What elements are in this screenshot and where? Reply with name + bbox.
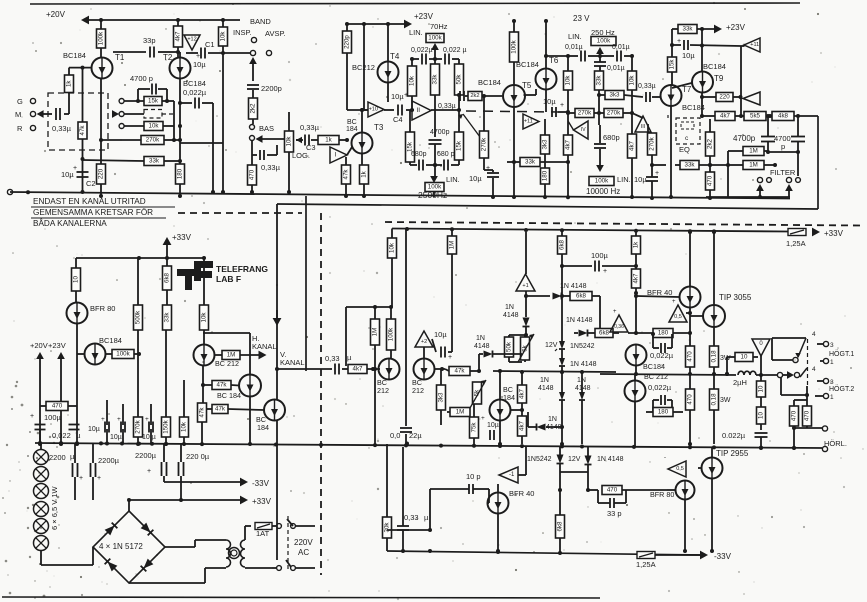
svg-text:4700p: 4700p xyxy=(733,134,756,143)
transistor T2 xyxy=(163,53,191,79)
capacitor 2200p xyxy=(247,84,282,93)
svg-text:BAND: BAND xyxy=(250,17,271,26)
main mid bus xyxy=(35,441,822,450)
svg-text:0,18: 0,18 xyxy=(711,393,718,406)
svg-text:184: 184 xyxy=(346,126,358,133)
svg-text:+: + xyxy=(97,475,101,482)
resistor 4k7 out xyxy=(702,112,744,121)
svg-text:BC 212: BC 212 xyxy=(215,359,239,368)
svg-text:100k: 100k xyxy=(595,178,609,185)
label BAS xyxy=(259,124,274,133)
resistor 10 outv2 xyxy=(757,407,766,430)
svg-text:1N5242: 1N5242 xyxy=(570,343,595,350)
capacitor 0.01 a xyxy=(568,51,602,62)
svg-text:+33V: +33V xyxy=(172,233,192,242)
wire eq stub xyxy=(667,114,669,118)
svg-text:BAS: BAS xyxy=(259,124,274,133)
capacitor 100u ps xyxy=(30,413,62,444)
wire fb right mid rail xyxy=(173,101,175,140)
node +20V to 100k xyxy=(99,18,103,29)
transistor BFR40 xyxy=(680,287,701,308)
wire 4700p down xyxy=(433,163,437,176)
wire -1 tri link xyxy=(518,447,526,475)
label HOGT1 xyxy=(829,350,854,358)
svg-text:1N 4148: 1N 4148 xyxy=(560,283,587,290)
arrow +20V up xyxy=(36,352,44,446)
svg-text:BC 212: BC 212 xyxy=(644,372,668,381)
svg-text:1,25A: 1,25A xyxy=(636,560,656,569)
label AVSP xyxy=(265,29,286,38)
svg-text:1N: 1N xyxy=(548,416,557,423)
svg-text:KANAL: KANAL xyxy=(280,358,305,367)
pot 5k d xyxy=(518,334,534,362)
label BC184 T1 xyxy=(63,51,86,60)
resistor 150k row xyxy=(162,330,171,446)
svg-text:1M: 1M xyxy=(456,409,465,416)
svg-text:AVSP.: AVSP. xyxy=(265,29,286,38)
capacitor 10u iii xyxy=(634,163,659,200)
svg-text:0,022µ: 0,022µ xyxy=(411,47,433,54)
pot wiper log arrow xyxy=(296,137,303,144)
wire amp sig mid xyxy=(405,367,449,446)
resistor 33k eq row xyxy=(652,161,728,170)
svg-text:47k: 47k xyxy=(215,406,226,413)
resistor 10k 70hz xyxy=(408,66,417,112)
wire v kanal out xyxy=(275,367,330,371)
wire T1 emitter down xyxy=(100,79,102,165)
svg-text:4k7: 4k7 xyxy=(353,366,364,373)
svg-text:1N 4148: 1N 4148 xyxy=(597,456,624,463)
svg-text:R: R xyxy=(17,124,23,133)
amp triangle 0.36 a xyxy=(610,309,628,332)
resistor 4k7 amp in xyxy=(348,365,380,374)
resistor 470 sp2 xyxy=(803,400,812,428)
wire f right join xyxy=(768,152,798,176)
capacitor 0.022 amp xyxy=(390,428,422,440)
svg-text:0,33µ: 0,33µ xyxy=(438,103,456,110)
capacitor C3 xyxy=(296,123,320,152)
resistor 10 outv1 xyxy=(757,375,766,407)
node 10k top xyxy=(221,18,225,27)
arrow bas wiper xyxy=(256,135,286,143)
svg-text:µ: µ xyxy=(76,431,81,440)
svg-text:0,33: 0,33 xyxy=(404,513,419,522)
capacitor 10u t5e xyxy=(469,165,499,199)
svg-text:220p: 220p xyxy=(344,35,351,49)
svg-text:BFR 40: BFR 40 xyxy=(509,489,534,498)
svg-text:FILTER: FILTER xyxy=(770,168,796,177)
resistor 10 bfr80 xyxy=(72,258,81,302)
resistor 2k2 bas xyxy=(249,98,258,119)
svg-text:680 p: 680 p xyxy=(437,151,455,158)
resistor 50k d xyxy=(505,335,527,362)
svg-text:1M: 1M xyxy=(227,352,236,359)
label 4x1N5172 xyxy=(99,542,143,551)
svg-text:5k5: 5k5 xyxy=(750,113,761,120)
main out wire xyxy=(600,372,736,376)
svg-text:33p: 33p xyxy=(143,36,156,45)
svg-text:0,33µ: 0,33µ xyxy=(638,83,656,90)
diode out1 xyxy=(566,317,595,337)
svg-text:BC184: BC184 xyxy=(63,51,86,60)
svg-text:IV: IV xyxy=(581,127,586,133)
svg-text:HÖGT.2: HÖGT.2 xyxy=(829,385,854,393)
svg-text:4k7: 4k7 xyxy=(175,31,182,42)
resistor 2k2 eq xyxy=(706,119,715,172)
svg-text:0,36: 0,36 xyxy=(614,324,624,330)
svg-text:0,33µ: 0,33µ xyxy=(52,124,72,133)
wire tri2 up xyxy=(739,46,745,118)
resistor 1M amp top xyxy=(448,229,457,254)
diode d4 down xyxy=(559,372,565,446)
label 4700p fb xyxy=(130,74,153,83)
svg-text:1N: 1N xyxy=(505,304,514,311)
dashed box fb xyxy=(144,110,162,119)
svg-text:+23V: +23V xyxy=(726,23,746,32)
svg-text:+: + xyxy=(481,415,485,422)
label BC212 out xyxy=(644,372,668,381)
svg-text:LIN.: LIN. xyxy=(409,28,423,37)
resistor 33k rail xyxy=(163,290,172,330)
wire 700 vertical xyxy=(727,165,729,198)
label 0.33u t7 xyxy=(638,83,656,90)
resistor 10k 250b xyxy=(628,54,637,115)
wire 100k to T1 xyxy=(100,48,102,57)
svg-text:+: + xyxy=(613,309,617,315)
svg-text:33k: 33k xyxy=(596,75,603,86)
input terminal M xyxy=(15,110,36,119)
svg-text:LIN.: LIN. xyxy=(446,175,460,184)
svg-text:10k: 10k xyxy=(389,242,396,253)
capacitor 4700p f2 xyxy=(791,116,805,154)
wire tip3055 collector xyxy=(712,230,716,305)
resistor 6k8 out xyxy=(595,329,619,338)
lamp chain xyxy=(34,450,49,551)
label BC184 T7 xyxy=(682,103,705,112)
resistor 470 outb xyxy=(686,374,695,446)
label +20V +23V xyxy=(30,341,66,350)
capacitor 0.022 out2 xyxy=(648,383,672,412)
svg-text:0,5: 0,5 xyxy=(676,466,684,472)
resistor 15k 70hz low xyxy=(406,110,415,165)
resistor 6k8 amp top xyxy=(558,232,567,254)
resistor 33k fb xyxy=(83,157,181,166)
switch filter 1 xyxy=(756,177,771,199)
wire 2k2 to bas node xyxy=(252,119,254,124)
label INSP xyxy=(233,28,252,37)
svg-text:0,022: 0,022 xyxy=(52,431,71,440)
resistor 10k r3 xyxy=(219,27,228,46)
label 470 ps xyxy=(40,402,77,411)
label BAND xyxy=(250,17,271,26)
svg-text:2k2: 2k2 xyxy=(250,103,257,114)
wire 226 vertical xyxy=(221,53,225,194)
svg-text:BC: BC xyxy=(347,119,357,126)
svg-text:+11: +11 xyxy=(524,119,533,125)
svg-text:2500Hz: 2500Hz xyxy=(418,190,447,200)
svg-text:75k: 75k xyxy=(471,422,478,433)
svg-text:LIN.: LIN. xyxy=(568,32,582,41)
svg-text:HÖRL.: HÖRL. xyxy=(824,439,847,448)
svg-text:0,5: 0,5 xyxy=(674,314,682,320)
svg-text:15k: 15k xyxy=(669,59,676,70)
svg-text:270k: 270k xyxy=(578,110,592,117)
wire T4 top xyxy=(386,22,390,62)
svg-text:6k8: 6k8 xyxy=(559,239,566,250)
diode d5 down xyxy=(579,372,585,444)
svg-text:BC184: BC184 xyxy=(183,79,206,88)
resistor 180 out2 xyxy=(646,408,683,417)
arrow fb2 xyxy=(112,110,174,118)
wire T2 top xyxy=(172,52,180,58)
svg-text:470: 470 xyxy=(249,169,256,180)
terminal out circle xyxy=(777,371,799,379)
capacitor C4 10u xyxy=(384,92,414,124)
wire 0.36 out xyxy=(628,294,653,335)
svg-text:270k: 270k xyxy=(481,137,488,151)
svg-text:3W: 3W xyxy=(720,397,731,404)
+20V rail wire xyxy=(46,10,240,24)
svg-text:100k: 100k xyxy=(511,39,518,53)
label 4700p f1 xyxy=(733,134,756,143)
capacitor C1 10u xyxy=(186,40,250,69)
label LAB F xyxy=(216,274,241,284)
capacitor 0.022 outv xyxy=(722,431,768,450)
label 1N4148 d6 xyxy=(546,416,562,431)
wire top rail amp xyxy=(392,227,788,233)
svg-text:3k3: 3k3 xyxy=(542,139,549,150)
label 0.022u b xyxy=(443,47,467,54)
svg-text:50k: 50k xyxy=(456,74,463,85)
svg-text:T4: T4 xyxy=(390,52,400,61)
resistor 220 emitter T1 xyxy=(97,164,106,184)
svg-text:+: + xyxy=(117,416,121,423)
amp triangle +11 mid xyxy=(523,114,539,129)
svg-text:+12: +12 xyxy=(187,37,196,43)
svg-text:220 0µ: 220 0µ xyxy=(186,452,210,461)
svg-text:+: + xyxy=(486,165,490,172)
svg-text:270k: 270k xyxy=(607,110,621,117)
fuse +33V top xyxy=(786,228,844,248)
svg-text:0,0: 0,0 xyxy=(390,431,400,440)
svg-text:6 × 6,5 V 1W: 6 × 6,5 V 1W xyxy=(50,486,59,530)
resistor 4k7 250b xyxy=(628,114,637,199)
wire T3 collector up xyxy=(360,108,364,133)
dashed divider horizontal xyxy=(178,213,860,226)
capacitor 4700p fb xyxy=(136,84,169,104)
svg-text:GEMENSAMMA KRETSAR FÖR: GEMENSAMMA KRETSAR FÖR xyxy=(33,207,153,217)
wire t5 down xyxy=(512,108,516,200)
svg-text:1k: 1k xyxy=(633,241,640,248)
svg-text:47k: 47k xyxy=(343,169,350,180)
transistor TIP3055 xyxy=(703,293,752,327)
capacitor 10p xyxy=(430,484,489,503)
svg-text:10 p: 10 p xyxy=(466,472,481,481)
svg-text:+: + xyxy=(448,354,452,361)
svg-text:BC212: BC212 xyxy=(352,63,375,72)
wire 10p left xyxy=(428,489,432,532)
wire 10 to tri xyxy=(753,356,763,377)
label 23V right xyxy=(573,14,590,23)
capacitor 0.33u t5 xyxy=(438,91,480,137)
capacitor 0.022 out1 xyxy=(650,332,674,360)
svg-text:10k: 10k xyxy=(629,75,636,86)
svg-text:184: 184 xyxy=(257,423,269,432)
pot 100k 10000Hz xyxy=(589,165,631,186)
diode d1 down xyxy=(523,296,530,337)
diode d2 right xyxy=(479,351,522,358)
svg-text:LOG.: LOG. xyxy=(292,151,310,160)
svg-text:BC184: BC184 xyxy=(703,62,726,71)
diode row d3 xyxy=(526,283,587,300)
svg-text:0,33µ: 0,33µ xyxy=(261,163,281,172)
svg-text:C3: C3 xyxy=(306,143,316,152)
resistor 180 t5 xyxy=(541,168,550,199)
resistor 270k row xyxy=(134,330,143,444)
wire bc184ps base xyxy=(77,353,85,355)
svg-text:2200µ: 2200µ xyxy=(135,451,157,460)
capacitor 0.33u bas xyxy=(252,141,281,173)
svg-text:10µ: 10µ xyxy=(193,60,206,69)
resistor 100k ps xyxy=(106,350,142,359)
label GEMENSAMMA KRETSAR FOR xyxy=(31,207,166,218)
rail -33V xyxy=(164,478,270,488)
svg-text:+: + xyxy=(73,165,77,172)
resistor 470 bas xyxy=(248,165,257,194)
resistor 4k7 amp2 xyxy=(518,410,527,444)
svg-text:15k: 15k xyxy=(456,140,463,151)
amp triangle 0 out xyxy=(752,339,770,356)
wire t5 t6 join xyxy=(524,89,537,95)
svg-text:+: + xyxy=(79,475,83,482)
wire T2 emitter xyxy=(178,79,182,165)
transistor BC212 hk xyxy=(194,345,239,369)
resistor 33k 250 xyxy=(595,71,604,125)
wire II out xyxy=(431,109,459,111)
resistor 270k iii xyxy=(648,133,657,165)
capacitor 680p right xyxy=(594,125,606,170)
wire 220 to bus xyxy=(99,184,103,198)
svg-text:2k2: 2k2 xyxy=(707,138,714,149)
resistor 10k volume pot xyxy=(285,131,294,152)
label BC184 T9 xyxy=(703,62,726,71)
wire 1M left join xyxy=(726,151,743,167)
svg-text:LIN.: LIN. xyxy=(617,175,631,184)
svg-text:10k: 10k xyxy=(409,75,416,86)
wire right border vertical xyxy=(817,116,819,209)
row 270k b xyxy=(594,109,643,119)
svg-text:6k8: 6k8 xyxy=(576,293,587,300)
wire 180 to bus xyxy=(178,184,182,198)
resistor 470 eq xyxy=(706,172,715,200)
amp triangle +10 xyxy=(362,102,384,117)
transistor T1 xyxy=(92,53,125,79)
wire 407 vertical xyxy=(405,229,407,444)
resistor 6k8 d3 xyxy=(570,292,600,330)
capacitor 4700p 70hz xyxy=(429,129,450,165)
resistor 100k bias xyxy=(387,307,396,359)
label 4700p f2 xyxy=(774,134,791,151)
wire bc184amp emitter xyxy=(498,421,502,447)
pot 5k amp xyxy=(470,380,486,408)
label BC184 out xyxy=(643,362,665,371)
svg-text:180: 180 xyxy=(658,330,669,337)
svg-text:2200p: 2200p xyxy=(261,84,282,93)
svg-text:10µ: 10µ xyxy=(391,92,404,101)
transistor BC184 out2 xyxy=(626,344,647,374)
svg-text:33k: 33k xyxy=(164,312,171,323)
wire 2200p to 2k2 xyxy=(252,90,254,98)
svg-text:470: 470 xyxy=(52,403,63,410)
svg-text:0,01µ: 0,01µ xyxy=(612,44,630,51)
switch contact fb3 xyxy=(119,124,124,129)
svg-text:BC184: BC184 xyxy=(99,336,122,345)
svg-text:BC184: BC184 xyxy=(643,362,665,371)
capacitor 680p a xyxy=(410,160,437,171)
svg-text:T6: T6 xyxy=(549,56,559,65)
label LOG xyxy=(292,151,310,160)
svg-text:INSP.: INSP. xyxy=(233,28,252,37)
svg-text:1: 1 xyxy=(830,394,834,401)
wire v kanal vertical 277 xyxy=(276,204,278,560)
capacitor 2200u 3 xyxy=(147,444,167,482)
resistor 270k fb xyxy=(99,136,180,145)
resistor 10 outh xyxy=(725,353,753,377)
resistor 5k6 out xyxy=(744,112,772,121)
resistor 4k7 t5 xyxy=(564,119,589,162)
svg-text:15k: 15k xyxy=(148,98,159,105)
label 1N4148 d5 xyxy=(575,377,591,392)
transistor BC184 hk2 xyxy=(239,375,261,397)
transistor BC184 amp xyxy=(490,369,511,421)
svg-text:150k: 150k xyxy=(163,419,170,433)
svg-text:0.022µ: 0.022µ xyxy=(722,431,746,440)
svg-text:4148: 4148 xyxy=(503,312,519,319)
arrow -33V xyxy=(700,551,732,561)
switch link dashed sp xyxy=(807,339,809,386)
capacitor 680p b xyxy=(435,160,459,171)
svg-text:50k: 50k xyxy=(506,341,513,352)
svg-text:10k: 10k xyxy=(220,31,227,42)
label 2200u 4 xyxy=(186,452,210,461)
capacitor 2200u 1 xyxy=(73,444,84,500)
transistor T4 xyxy=(378,52,400,83)
arrow H KANAL xyxy=(252,310,281,351)
svg-text:4k7: 4k7 xyxy=(720,113,731,120)
resistor 47k hk1 xyxy=(203,381,240,390)
label BC184 T6 xyxy=(516,60,539,69)
capacitor 0.33u t7 xyxy=(646,92,660,102)
svg-text:4k7: 4k7 xyxy=(633,273,640,284)
label 680p a xyxy=(411,151,427,158)
label 0.33u low xyxy=(404,513,429,522)
svg-text:33k: 33k xyxy=(149,158,160,165)
dashed screen box input xyxy=(48,93,108,150)
input terminal R xyxy=(17,124,36,133)
transistor BFR40 low xyxy=(488,484,509,553)
label BC212 T4 xyxy=(352,63,375,72)
svg-text:10 µ: 10 µ xyxy=(142,434,156,441)
wire 562 top xyxy=(560,254,564,332)
amp triangle -1 xyxy=(499,467,518,483)
resistor 6k8 rail xyxy=(163,266,172,290)
svg-text:100µ: 100µ xyxy=(44,413,62,422)
svg-text:100k: 100k xyxy=(388,327,395,341)
svg-text:1,25A: 1,25A xyxy=(786,239,806,248)
svg-text:10µ: 10µ xyxy=(543,97,556,106)
label 2200u 2 xyxy=(98,456,120,465)
wire 352 drop xyxy=(345,307,347,366)
